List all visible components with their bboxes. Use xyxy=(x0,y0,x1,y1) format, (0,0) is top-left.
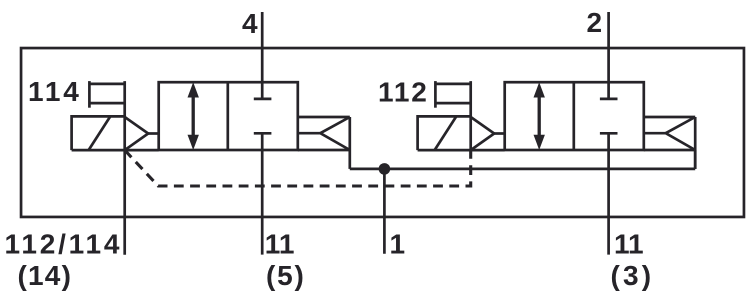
svg-text:11: 11 xyxy=(265,229,295,260)
svg-text:(5): (5) xyxy=(266,260,306,291)
svg-text:1: 1 xyxy=(390,229,406,260)
svg-text:2: 2 xyxy=(587,7,603,38)
svg-text:112: 112 xyxy=(378,76,429,107)
svg-text:(3): (3) xyxy=(611,260,655,291)
svg-text:11: 11 xyxy=(614,229,644,260)
svg-text:112/114: 112/114 xyxy=(5,229,123,260)
svg-text:114: 114 xyxy=(28,76,82,107)
svg-text:4: 4 xyxy=(242,8,258,39)
svg-text:(14): (14) xyxy=(18,260,73,291)
